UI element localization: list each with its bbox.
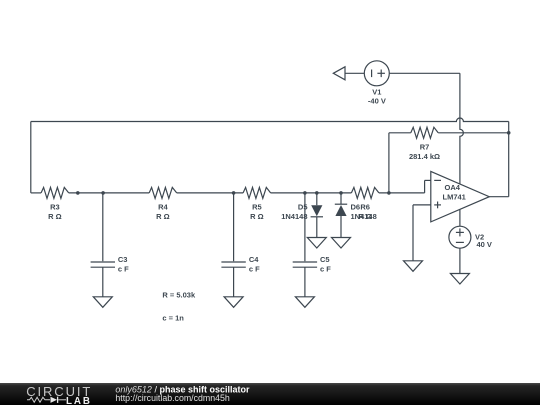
svg-text:LM741: LM741: [443, 193, 466, 202]
svg-text:R7: R7: [420, 142, 430, 151]
svg-text:R6: R6: [360, 203, 370, 212]
svg-text:c = 1n: c = 1n: [162, 313, 184, 322]
svg-text:C4: C4: [249, 255, 259, 264]
svg-text:http://circuitlab.com/cdmn45h: http://circuitlab.com/cdmn45h: [115, 393, 230, 403]
svg-text:c F: c F: [118, 265, 129, 274]
svg-text:R Ω: R Ω: [250, 212, 264, 221]
svg-text:1N4148: 1N4148: [351, 212, 377, 221]
svg-text:LAB: LAB: [66, 396, 92, 405]
svg-text:40 V: 40 V: [477, 240, 492, 249]
svg-text:D5: D5: [298, 203, 308, 212]
svg-text:R5: R5: [252, 203, 262, 212]
svg-text:R = 5.03k: R = 5.03k: [162, 291, 196, 300]
svg-text:D6: D6: [351, 203, 361, 212]
svg-text:-40 V: -40 V: [368, 97, 386, 106]
svg-text:c F: c F: [320, 265, 331, 274]
svg-text:C3: C3: [118, 255, 128, 264]
svg-text:R4: R4: [158, 203, 168, 212]
svg-text:281.4 kΩ: 281.4 kΩ: [409, 152, 440, 161]
svg-text:R Ω: R Ω: [156, 212, 170, 221]
svg-text:V1: V1: [372, 88, 381, 97]
svg-text:1N4148: 1N4148: [281, 212, 307, 221]
svg-text:C5: C5: [320, 255, 330, 264]
svg-text:R3: R3: [50, 203, 60, 212]
svg-text:c F: c F: [249, 265, 260, 274]
svg-text:R Ω: R Ω: [48, 212, 62, 221]
svg-text:OA4: OA4: [445, 183, 461, 192]
